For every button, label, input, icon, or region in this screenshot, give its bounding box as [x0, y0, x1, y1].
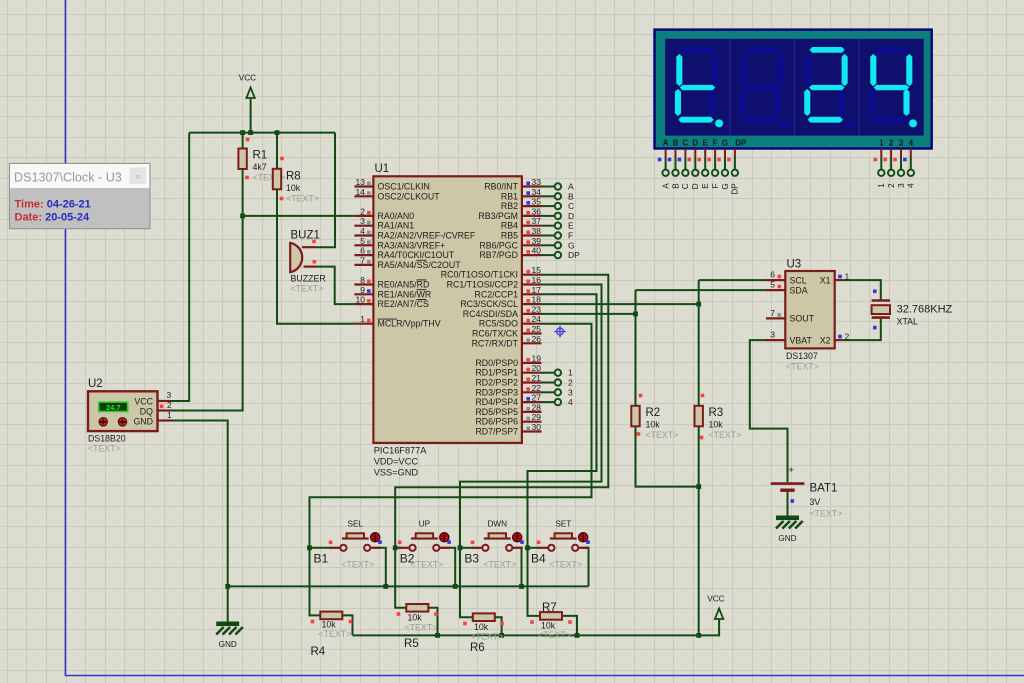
svg-text:B: B [673, 139, 679, 148]
svg-text:BUZ1: BUZ1 [291, 230, 320, 242]
pin square display F [707, 158, 711, 162]
svg-text:RD5/PSP5: RD5/PSP5 [475, 407, 518, 417]
junction R1 top / rail [240, 130, 245, 135]
transistor BUZ1 buzzer symbol [290, 243, 302, 272]
pin square B1 left [329, 541, 333, 545]
wire pin 22 to terminal [542, 391, 555, 393]
7-segment display module [655, 30, 932, 149]
pin 25 stub (right) [522, 332, 542, 334]
svg-text:4: 4 [909, 139, 914, 148]
svg-text:10k: 10k [408, 613, 423, 623]
wire pin 38 to terminal [542, 235, 555, 237]
pin square U2 DQ [160, 405, 164, 409]
pin 33 stub (right) [522, 185, 542, 187]
pin square display E [697, 158, 701, 162]
U2 pin 2 stub [157, 409, 170, 411]
wire buzzer bottom pin to RE2 pin10 [317, 267, 355, 305]
display digit 1 't' [675, 47, 723, 127]
wire U2 GND pin to ground symbol [168, 421, 228, 622]
svg-text:2: 2 [845, 332, 850, 342]
svg-text:<TEXT>: <TEXT> [549, 560, 582, 570]
pin 1 stub (left) [354, 323, 373, 325]
svg-text:D: D [568, 211, 574, 221]
pin square R5 left [397, 612, 401, 616]
svg-text:XTAL: XTAL [897, 317, 918, 327]
terminal A at pin 33 [555, 183, 561, 189]
pin 2 stub (left) [354, 215, 373, 217]
wire R3 bottom to VCC rail [698, 425, 700, 635]
svg-text:DP: DP [568, 250, 580, 260]
pin square display DP [727, 158, 731, 162]
svg-text:RA5/AN4/SS/C2OUT: RA5/AN4/SS/C2OUT [378, 260, 462, 270]
pin 3 stub (left) [354, 225, 373, 227]
svg-text:2: 2 [167, 400, 172, 410]
pin 16 stub (right) [522, 283, 542, 285]
svg-text:DQ: DQ [140, 407, 153, 417]
ground symbol (bottom left) [216, 622, 243, 650]
svg-text:RC6/TX/CK: RC6/TX/CK [472, 329, 518, 339]
wire pin 39 to terminal [542, 244, 555, 246]
svg-text:3V: 3V [810, 497, 821, 507]
wire U3 X1 to crystal top [843, 280, 881, 300]
U2 LCD readout 24.7 [98, 401, 129, 412]
wire B3 right leg to ground [515, 548, 522, 587]
svg-text:VCC: VCC [707, 595, 724, 604]
svg-text:OSC2/CLKOUT: OSC2/CLKOUT [378, 191, 441, 201]
pin 34 stub (right) [522, 195, 542, 197]
display digit 3 '2' [804, 47, 852, 127]
svg-text:17: 17 [532, 285, 542, 295]
pin 7 stub (left) [354, 264, 373, 266]
svg-text:10: 10 [356, 295, 366, 305]
svg-text:22: 22 [532, 383, 542, 393]
svg-text:9: 9 [360, 285, 365, 295]
svg-text:RC1/T1OSI/CCP2: RC1/T1OSI/CCP2 [447, 280, 518, 290]
resistor R1 [238, 149, 246, 170]
svg-text:E: E [703, 139, 709, 148]
op-amp U2 DS18B20 body [88, 391, 158, 431]
svg-text:3: 3 [897, 183, 906, 188]
svg-text:<TEXT>: <TEXT> [786, 362, 819, 372]
U3 pin 2 X2 stub [835, 339, 843, 341]
svg-text:Date: 20-05-24: Date: 20-05-24 [15, 212, 90, 224]
resistor R5 [406, 604, 428, 612]
pin square display common 4 [903, 158, 907, 162]
svg-text:3: 3 [899, 139, 904, 148]
svg-text:RE2/AN7/CS: RE2/AN7/CS [378, 299, 429, 309]
svg-text:<TEXT>: <TEXT> [341, 560, 374, 570]
svg-text:40: 40 [532, 246, 542, 256]
wire U3 VBAT to battery + [750, 340, 788, 482]
svg-text:37: 37 [532, 216, 542, 226]
wire pin 40 to terminal [542, 254, 555, 256]
wire R8 bottom to MCLR pin1 [277, 189, 354, 323]
svg-text:RE0/AN5/RD: RE0/AN5/RD [378, 280, 430, 290]
svg-text:10k: 10k [646, 420, 661, 430]
svg-text:VCC: VCC [134, 397, 153, 407]
U3 pin 6 SCL stub [766, 279, 785, 281]
U2 terminal circle 2 [118, 418, 126, 426]
svg-text:RE1/AN6/WR: RE1/AN6/WR [378, 289, 432, 299]
wire B1 left pin [310, 547, 333, 549]
terminal 3 below display [898, 170, 904, 176]
svg-text:34: 34 [532, 187, 542, 197]
display pin G [724, 149, 726, 170]
svg-text:2: 2 [360, 206, 365, 216]
U2 pin 1 stub [157, 419, 170, 421]
svg-text:39: 39 [532, 236, 542, 246]
svg-text:DP: DP [731, 183, 740, 195]
svg-text:30: 30 [532, 422, 542, 432]
transistor-style push button B2 (UP) [399, 533, 450, 551]
svg-text:R3: R3 [709, 407, 724, 419]
svg-text:<TEXT>: <TEXT> [88, 444, 121, 454]
pin 8 stub (left) [354, 283, 373, 285]
svg-text:<TEXT>: <TEXT> [646, 430, 679, 440]
svg-text:BUZZER: BUZZER [291, 274, 326, 284]
display pin 4 (common) [910, 149, 912, 170]
pin square battery [791, 499, 795, 503]
svg-text:1: 1 [845, 272, 850, 282]
svg-text:RC4/SDI/SDA: RC4/SDI/SDA [463, 309, 518, 319]
junction B1/gnd [383, 584, 388, 589]
pin square crystal top [873, 290, 877, 294]
pin buzzer top [302, 246, 316, 248]
svg-text:19: 19 [532, 353, 542, 363]
resistor R6 [473, 613, 495, 621]
wire pin 27 to terminal [542, 401, 555, 403]
svg-text:32.768KHZ: 32.768KHZ [897, 304, 953, 316]
pin square B4 left [537, 541, 541, 545]
svg-text:4: 4 [360, 226, 365, 236]
power VCC symbol (bottom right) [707, 595, 724, 620]
svg-text:RB3/PGM: RB3/PGM [478, 211, 518, 221]
pin 23 stub (right) [522, 313, 542, 315]
svg-text:14: 14 [356, 187, 366, 197]
resistor R3 [695, 406, 703, 427]
svg-text:1: 1 [877, 183, 886, 188]
pin square R7 right [568, 620, 572, 624]
svg-text:D: D [692, 139, 698, 148]
svg-text:PIC16F877A: PIC16F877A [374, 446, 427, 456]
pin 38 stub (right) [522, 234, 542, 236]
wire R8 top lead [276, 133, 278, 170]
svg-text:B1: B1 [314, 552, 329, 566]
pin square B3 left [471, 541, 475, 545]
svg-text:<TEXT>: <TEXT> [810, 509, 843, 519]
pin square crystal bottom [873, 326, 877, 330]
pin 27 stub (right) [522, 401, 542, 403]
pin square display common 3 [893, 158, 897, 162]
pin 36 stub (right) [522, 215, 542, 217]
svg-text:SET: SET [555, 519, 571, 528]
display segment letters ABCDEFG DP [663, 139, 914, 148]
svg-text:U2: U2 [88, 378, 103, 390]
terminal F at pin 38 [555, 232, 561, 238]
terminal DP below display [732, 170, 738, 176]
pin square display common 1 [874, 158, 878, 162]
svg-text:RA3/AN3/VREF+: RA3/AN3/VREF+ [378, 240, 446, 250]
svg-text:24: 24 [532, 314, 542, 324]
pin 15 stub (right) [522, 274, 542, 276]
pin square R4 left [311, 620, 315, 624]
ground symbol (battery) [776, 516, 803, 544]
pin square B3 right [520, 540, 524, 544]
junction R7/vcc rail [575, 633, 580, 638]
wire R2 bottom join R3 [636, 425, 699, 487]
svg-text:DS18B20: DS18B20 [88, 434, 126, 444]
svg-text:RB0/INT: RB0/INT [484, 182, 518, 192]
svg-text:UP: UP [419, 519, 431, 528]
wire buzzer top pin to VCC rail [316, 133, 335, 248]
wire pin 33 to terminal [542, 186, 555, 188]
svg-text:36: 36 [532, 206, 542, 216]
junction R8 top / rail [275, 130, 280, 135]
pin 20 stub (right) [522, 372, 542, 374]
wire pin 20 to terminal [542, 372, 555, 374]
pin 35 stub (right) [522, 205, 542, 207]
svg-text:RC0/T1OSO/T1CKI: RC0/T1OSO/T1CKI [441, 270, 518, 280]
node origin marker (blue crosshair) [554, 326, 566, 338]
svg-text:R2: R2 [646, 407, 661, 419]
svg-text:F: F [711, 183, 720, 188]
resistor R7 [540, 612, 562, 620]
svg-text:<TEXT>: <TEXT> [286, 194, 319, 204]
wire SCL to U3 [699, 279, 766, 281]
terminal G at pin 39 [555, 242, 561, 248]
junction B2 left pin [393, 545, 398, 550]
svg-text:7: 7 [360, 255, 365, 265]
terminal 2 below display [888, 170, 894, 176]
svg-text:4k7: 4k7 [253, 162, 267, 172]
pin 18 stub (right) [522, 303, 542, 305]
pin 26 stub (right) [522, 342, 542, 344]
svg-text:1: 1 [360, 314, 365, 324]
junction B3/gnd [519, 584, 524, 589]
U3 pin 1 X1 stub [835, 279, 843, 281]
terminal 1 below display [878, 170, 884, 176]
svg-text:E: E [568, 221, 574, 231]
svg-text:5: 5 [770, 280, 775, 290]
svg-text:G: G [721, 183, 730, 189]
svg-text:<TEXT>: <TEXT> [483, 560, 516, 570]
svg-text:3: 3 [360, 216, 365, 226]
svg-text:4: 4 [907, 183, 916, 188]
svg-text:R4: R4 [311, 646, 326, 658]
pin square B2 right [447, 540, 451, 544]
svg-text:RD0/PSP0: RD0/PSP0 [475, 358, 518, 368]
svg-text:RC3/SCK/SCL: RC3/SCK/SCL [460, 299, 518, 309]
pin square buzzer top [312, 240, 316, 244]
resistor R4 [320, 612, 342, 620]
pin 29 stub (right) [522, 421, 542, 423]
pin square display C [678, 158, 682, 162]
terminal G below display [722, 170, 728, 176]
junction B3 left pin [458, 545, 463, 550]
terminal E at pin 37 [555, 223, 561, 229]
svg-text:RA4/T0CKI/C1OUT: RA4/T0CKI/C1OUT [378, 250, 455, 260]
junction R3 leg/vcc rail [696, 633, 701, 638]
svg-text:1: 1 [568, 368, 573, 378]
display digit 4 '4' [869, 47, 917, 127]
wire B3 left pin [460, 547, 474, 549]
wire VCC symbol stem [250, 99, 252, 133]
wire SDA vertical / R2 top [635, 290, 637, 406]
display pin F [714, 149, 716, 170]
wire R6 right lead [494, 617, 502, 635]
resistor R8 [273, 169, 281, 190]
wire R7 right lead [562, 616, 577, 636]
svg-text:C: C [683, 139, 689, 148]
display pin D [694, 149, 696, 170]
svg-text:D: D [691, 183, 700, 189]
svg-text:G: G [568, 240, 575, 250]
display pin DP [734, 149, 736, 170]
svg-text:B3: B3 [464, 552, 479, 566]
svg-text:×: × [135, 172, 141, 183]
junction B1 left pin [307, 545, 312, 550]
svg-text:VCC: VCC [239, 74, 256, 83]
svg-text:+: + [788, 465, 794, 476]
wire pin 37 to terminal [542, 225, 555, 227]
transistor-style push button B3 (DWN) [472, 533, 523, 551]
pin square display common 2 [883, 158, 887, 162]
svg-text:A: A [661, 183, 670, 189]
svg-text:GND: GND [219, 640, 237, 649]
svg-text:SEL: SEL [348, 519, 364, 528]
wire R1 bottom to U2 DQ [168, 169, 243, 411]
svg-text:DWN: DWN [488, 519, 508, 528]
pin 21 stub (right) [522, 381, 542, 383]
svg-text:SOUT: SOUT [790, 314, 815, 324]
pin square display D [688, 158, 692, 162]
svg-text:R7: R7 [542, 602, 557, 614]
svg-text:R6: R6 [470, 642, 485, 654]
display pin E [704, 149, 706, 170]
terminal C below display [682, 170, 688, 176]
pin 14 stub (left) [354, 195, 373, 197]
terminal 3 at pin 22 [555, 389, 561, 395]
pin 17 stub (right) [522, 293, 542, 295]
svg-text:F: F [713, 139, 718, 148]
pin 40 stub (right) [522, 254, 542, 256]
U2 pin 3 stub [157, 400, 170, 402]
svg-text:21: 21 [532, 373, 542, 383]
wire B4 right leg to ground [581, 548, 589, 587]
wire B2 right leg to ground [442, 548, 455, 587]
wire battery - to ground [787, 491, 789, 516]
svg-text:5: 5 [360, 236, 365, 246]
svg-text:2: 2 [568, 378, 573, 388]
transistor-style push button B4 (SET) [538, 533, 589, 551]
svg-text:OSC1/CLKIN: OSC1/CLKIN [378, 182, 430, 192]
svg-text:U1: U1 [375, 163, 390, 175]
battery BAT1 [771, 484, 805, 491]
wire R5 right lead [428, 608, 438, 636]
junction SCL/R3 [696, 302, 701, 307]
U2 terminal circle 1 [99, 418, 107, 426]
svg-text:VSS=GND: VSS=GND [374, 468, 419, 478]
pin 30 stub (right) [522, 430, 542, 432]
wire R4 right lead [342, 615, 352, 635]
svg-text:33: 33 [532, 177, 542, 187]
svg-text:35: 35 [532, 197, 542, 207]
svg-text:3: 3 [568, 387, 573, 397]
svg-text:RB4: RB4 [501, 221, 518, 231]
wire pin 34 to terminal [542, 195, 555, 197]
svg-text:C: C [681, 183, 690, 189]
pin square display B [668, 158, 672, 162]
tooltip window DS1307\Clock - U3 [9, 163, 150, 228]
display pin 3 (common) [900, 149, 902, 170]
svg-text:GND: GND [778, 534, 796, 543]
wire pin 36 to terminal [542, 215, 555, 217]
pin 22 stub (right) [522, 391, 542, 393]
junction B4 left pin [525, 545, 530, 550]
svg-text:RC5/SDO: RC5/SDO [479, 319, 518, 329]
wire RC0 pin15 to B2/R5 net [395, 275, 608, 608]
terminal D below display [692, 170, 698, 176]
junction VCC stem / rail [248, 130, 253, 135]
svg-text:20: 20 [532, 363, 542, 373]
wire RC4/SDA row [542, 313, 636, 315]
terminal D at pin 36 [555, 213, 561, 219]
svg-text:RB2: RB2 [501, 201, 518, 211]
op-amp U1 PIC16F877A chip body [373, 176, 522, 443]
svg-text:27: 27 [532, 393, 542, 403]
display pin B [675, 149, 677, 170]
pin 19 stub (right) [522, 362, 542, 364]
svg-text:RD6/PSP6: RD6/PSP6 [475, 417, 518, 427]
svg-text:10k: 10k [709, 420, 724, 430]
svg-text:23: 23 [532, 304, 542, 314]
wire U3 X2 to crystal bottom [843, 318, 881, 341]
svg-text:4: 4 [568, 397, 573, 407]
pin 39 stub (right) [522, 244, 542, 246]
svg-text:10k: 10k [474, 622, 489, 632]
U3 pin 5 SDA stub [766, 289, 785, 291]
svg-text:DS1307\Clock - U3: DS1307\Clock - U3 [14, 171, 122, 185]
svg-text:R5: R5 [404, 638, 419, 650]
wire RC2 pin17 to B4/R7 net [528, 294, 597, 616]
svg-text:DS1307: DS1307 [786, 351, 818, 361]
wire SCL vertical / R3 top [698, 280, 700, 406]
terminal A below display [662, 170, 668, 176]
svg-text:RD4/PSP4: RD4/PSP4 [475, 397, 518, 407]
svg-text:RC2/CCP1: RC2/CCP1 [474, 289, 518, 299]
wire bottom VCC rail [353, 620, 720, 636]
svg-text:7: 7 [770, 308, 775, 318]
pin square display A [658, 158, 662, 162]
display digit separators [730, 39, 859, 136]
svg-text:Time: 04-26-21: Time: 04-26-21 [15, 199, 91, 211]
svg-text:RD7/PSP7: RD7/PSP7 [475, 427, 518, 437]
pin buzzer bottom [304, 266, 317, 268]
svg-text:10k: 10k [322, 620, 337, 630]
svg-text:MCLR/Vpp/THV: MCLR/Vpp/THV [378, 319, 441, 329]
display pin C [684, 149, 686, 170]
terminal 2 at pin 21 [555, 379, 561, 385]
terminal 4 below display [908, 170, 914, 176]
wire B4 left pin [528, 547, 541, 549]
svg-text:15: 15 [532, 265, 542, 275]
svg-text:DP: DP [735, 139, 747, 148]
resistor R2 [631, 406, 639, 427]
svg-text:X2: X2 [820, 335, 831, 345]
svg-text:RB6/PGC: RB6/PGC [479, 240, 518, 250]
svg-text:18: 18 [532, 295, 542, 305]
svg-text:<TEXT>: <TEXT> [319, 629, 352, 639]
